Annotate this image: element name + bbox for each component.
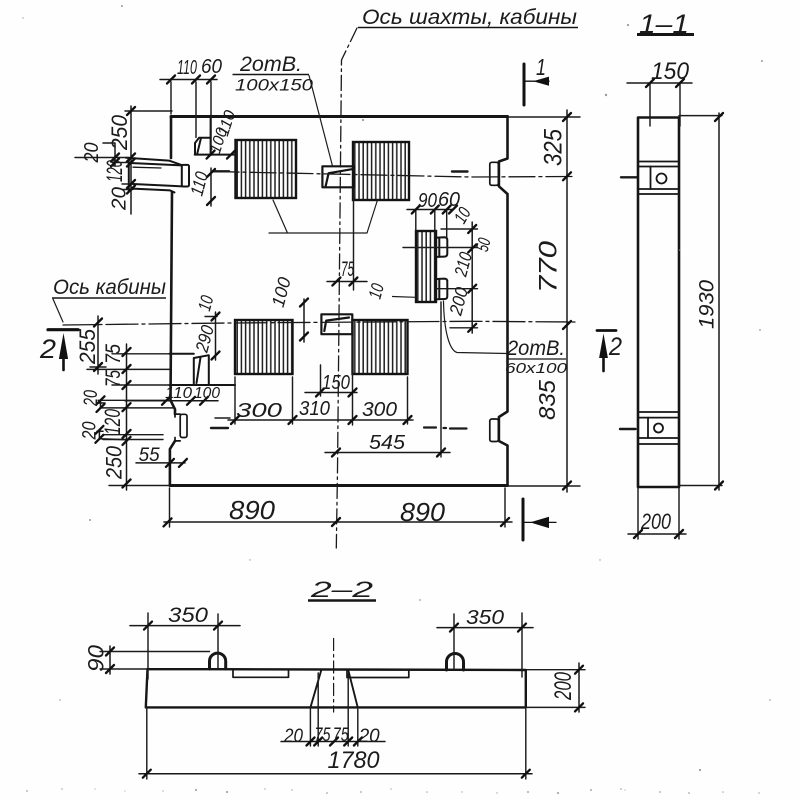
- svg-text:2: 2: [39, 334, 56, 364]
- svg-text:20: 20: [80, 421, 101, 440]
- svg-text:75: 75: [333, 725, 349, 746]
- svg-text:890: 890: [400, 497, 446, 527]
- svg-text:20: 20: [108, 187, 130, 211]
- svg-text:100x150: 100x150: [235, 76, 314, 95]
- svg-text:60x100: 60x100: [505, 360, 568, 377]
- svg-text:250: 250: [107, 114, 132, 151]
- svg-text:835: 835: [534, 380, 560, 420]
- svg-text:110: 110: [177, 57, 197, 79]
- svg-text:1780: 1780: [328, 747, 381, 774]
- svg-text:60: 60: [201, 56, 222, 78]
- svg-text:255: 255: [75, 328, 100, 365]
- svg-text:545: 545: [369, 432, 406, 454]
- svg-text:90: 90: [418, 190, 437, 212]
- svg-text:20: 20: [283, 726, 303, 747]
- svg-text:2отВ.: 2отВ.: [506, 337, 565, 360]
- svg-text:75: 75: [315, 725, 331, 746]
- svg-text:75: 75: [102, 344, 125, 364]
- svg-text:20: 20: [81, 390, 102, 407]
- svg-text:Ось шахты, кабины: Ось шахты, кабины: [362, 6, 578, 29]
- svg-text:120: 120: [100, 408, 125, 435]
- svg-text:110: 110: [165, 385, 192, 402]
- svg-text:20: 20: [81, 143, 103, 164]
- svg-text:75: 75: [341, 258, 354, 281]
- svg-text:2: 2: [608, 333, 622, 361]
- svg-text:150: 150: [322, 372, 350, 394]
- svg-text:250: 250: [101, 445, 126, 480]
- svg-text:325: 325: [540, 129, 568, 166]
- svg-text:55: 55: [139, 445, 160, 466]
- svg-text:150: 150: [651, 58, 690, 85]
- svg-text:120: 120: [102, 160, 127, 182]
- svg-text:100: 100: [194, 385, 220, 402]
- svg-text:770: 770: [535, 241, 563, 293]
- svg-text:890: 890: [229, 495, 276, 525]
- svg-text:20: 20: [358, 726, 380, 747]
- svg-text:200: 200: [640, 509, 671, 534]
- svg-text:90: 90: [83, 644, 108, 672]
- svg-text:350: 350: [168, 604, 208, 627]
- svg-text:1930: 1930: [696, 280, 719, 329]
- svg-text:300: 300: [362, 399, 397, 421]
- svg-text:200: 200: [550, 672, 577, 701]
- svg-text:300: 300: [236, 400, 282, 422]
- svg-text:2–2: 2–2: [309, 577, 373, 602]
- svg-text:75: 75: [102, 370, 125, 387]
- svg-text:350: 350: [466, 607, 504, 629]
- svg-text:310: 310: [299, 398, 330, 420]
- svg-text:Ось кабины: Ось кабины: [53, 276, 167, 299]
- svg-text:1: 1: [536, 54, 546, 80]
- svg-text:2отВ.: 2отВ.: [239, 53, 302, 76]
